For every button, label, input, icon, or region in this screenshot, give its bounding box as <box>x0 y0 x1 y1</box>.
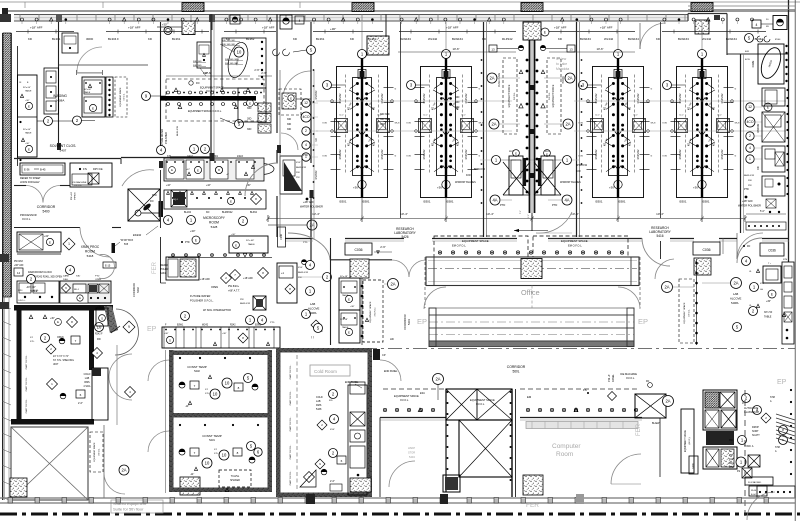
top-right keynote box 4 <box>752 20 761 28</box>
svg-text:BHW-ICW: BHW-ICW <box>474 168 486 171</box>
svg-text:4: 4 <box>756 23 758 27</box>
svg-text:BLW164: BLW164 <box>726 37 737 41</box>
svg-text:FER: FER <box>152 261 158 274</box>
svg-text:PTD: PTD <box>500 203 505 207</box>
svg-text:E: E <box>290 96 292 100</box>
svg-text:PIPING: PIPING <box>75 192 77 200</box>
svg-text:-14": -14" <box>185 406 189 408</box>
svg-text:FS: FS <box>583 388 587 392</box>
svg-text:+66" AFF: +66" AFF <box>14 264 24 267</box>
door arc cold to corridor <box>380 360 401 381</box>
west wall water polisher fixtures <box>280 156 302 194</box>
svg-text:BHW-ICW: BHW-ICW <box>240 303 251 305</box>
office west double door arcs <box>392 260 409 277</box>
svg-text:CART O.F.O.L.: CART O.F.O.L. <box>289 416 292 431</box>
computer room north wall <box>380 417 446 419</box>
svg-text:+30": +30" <box>164 333 169 335</box>
central fume hood spine wall <box>529 22 531 213</box>
dark mech box below shaft <box>443 475 460 492</box>
svg-text:LAB: LAB <box>310 302 315 306</box>
svg-text:SOLVENT CLOS.: SOLVENT CLOS. <box>50 144 77 148</box>
svg-text:WATER POLISHER: WATER POLISHER <box>300 205 323 209</box>
svg-text:PANEL: PANEL <box>612 374 615 382</box>
svg-text:HOOD: HOOD <box>562 76 565 83</box>
alcove west callouts <box>302 260 307 265</box>
dry ice room <box>70 163 112 187</box>
svg-text:PROCESSOR: PROCESSOR <box>20 213 37 217</box>
svg-text:EQUIPMENT SPACE: EQUIPMENT SPACE <box>93 442 96 462</box>
svg-text:LLO: LLO <box>680 115 684 117</box>
wall segment below elevator <box>160 170 162 228</box>
svg-text:PTD: PTD <box>152 194 157 197</box>
instrument lab east wall x211 <box>210 14 212 160</box>
svg-text:+18" AFF: +18" AFF <box>600 26 613 30</box>
door arc instrument lab south <box>245 163 278 196</box>
svg-text:+42": +42" <box>186 169 190 171</box>
svg-text:BL362: BL362 <box>368 37 377 41</box>
svg-text:BHW-ICW: BHW-ICW <box>744 175 755 177</box>
svg-text:EQUIPMENT SPACE: EQUIPMENT SPACE <box>508 84 511 107</box>
svg-text:G: G <box>735 89 737 91</box>
svg-text:KD: KD <box>766 26 769 28</box>
lower-left lab bench row y327 <box>162 327 280 348</box>
svg-text:2: 2 <box>749 134 751 138</box>
callout bubble 3 left pair <box>323 81 332 90</box>
svg-text:HD: HD <box>390 337 394 341</box>
autoclave labels <box>742 394 751 403</box>
svg-text:BL362: BL362 <box>246 37 255 41</box>
svg-text:+6": +6" <box>226 174 229 176</box>
svg-text:RNP242: RNP242 <box>315 170 318 180</box>
bottom right door arc <box>747 492 775 520</box>
svg-text:FD: FD <box>150 199 154 203</box>
cold room 1 east wall heavy <box>89 310 94 370</box>
solvent closet walls <box>14 158 121 160</box>
svg-text:10: 10 <box>237 50 242 55</box>
svg-text:REFER TO SHEET: REFER TO SHEET <box>20 177 41 180</box>
svg-text:30"x 48": 30"x 48" <box>340 319 348 321</box>
keynote boxes 13 <box>489 45 497 52</box>
svg-text:13'-6": 13'-6" <box>204 71 211 75</box>
pac keynote box right of x277 <box>280 15 292 29</box>
svg-text:RNP242: RNP242 <box>464 93 468 103</box>
svg-text:G: G <box>395 156 397 158</box>
media poler room walls <box>160 237 162 283</box>
svg-text:"W 5/8" BOX: "W 5/8" BOX <box>120 240 134 242</box>
svg-text:5408A: 5408A <box>731 301 739 305</box>
svg-text:EQUIPMENT SPACE O.F.O.L.: EQUIPMENT SPACE O.F.O.L. <box>188 110 222 113</box>
svg-text:PTD: PTD <box>744 188 749 191</box>
column marker grid blocks top <box>182 3 204 12</box>
svg-text:+48" AFF: +48" AFF <box>303 200 314 204</box>
const temp door arcs west <box>148 360 169 381</box>
svg-text:BL/EW: BL/EW <box>652 422 660 425</box>
bench front line below top wall <box>16 31 74 33</box>
svg-text:+16": +16" <box>206 185 211 187</box>
svg-text:-14": -14" <box>190 474 194 476</box>
east lab wall <box>740 54 742 233</box>
svg-text:CART O.F.O.L.: CART O.F.O.L. <box>25 354 28 369</box>
svg-text:O.F.O.L.: O.F.O.L. <box>18 300 26 302</box>
svg-text:EP: EP <box>147 326 157 333</box>
cold room big walls <box>276 348 281 497</box>
svg-text:30D 30D: 30D 30D <box>380 113 390 116</box>
svg-text:EP: EP <box>638 317 648 326</box>
svg-text:E: E <box>230 199 232 203</box>
svg-text:KD: KD <box>28 37 32 41</box>
bottom corridor wall band gray <box>0 497 310 499</box>
svg-text:IMAGING: IMAGING <box>53 94 67 98</box>
svg-text:14: 14 <box>17 271 21 275</box>
svg-text:BLW164: BLW164 <box>628 37 639 41</box>
svg-text:AUTOCLAVE: AUTOCLAVE <box>744 407 759 410</box>
cold room 1 south wall heavy <box>11 419 94 425</box>
cold room label box <box>310 365 350 376</box>
elevation reference box <box>20 163 65 175</box>
corridor wall door arcs <box>288 233 330 260</box>
imaging equipment space dashed <box>115 77 127 117</box>
svg-text:ICW: ICW <box>576 170 581 173</box>
svg-text:2A: 2A <box>733 281 738 286</box>
svg-text:WL342: WL342 <box>702 37 712 41</box>
svg-text:LAB: LAB <box>316 400 321 403</box>
svg-text:30D: 30D <box>287 124 292 126</box>
svg-text:5416: 5416 <box>656 234 663 238</box>
svg-text:KO: KO <box>315 138 318 142</box>
svg-text:4CO: 4CO <box>303 115 310 119</box>
equipment space dashed rect right of x277 wall <box>279 89 301 115</box>
svg-text:30D: 30D <box>247 128 252 131</box>
svg-text:PTD: PTD <box>270 322 275 324</box>
svg-text:EM O.F.O.L.: EM O.F.O.L. <box>568 244 583 248</box>
const temp room B walls <box>169 417 174 492</box>
corridor 5402 vertical band walls <box>104 306 118 333</box>
svg-text:Office: Office <box>521 288 540 297</box>
svg-text:EQUIPMENT SPACE: EQUIPMENT SPACE <box>683 302 686 323</box>
cold room bottom stipple pad <box>350 478 371 492</box>
svg-text:LLO: LLO <box>340 115 344 117</box>
left border lower wall <box>3 297 5 500</box>
svg-text:13: 13 <box>491 47 495 51</box>
svg-text:BL301: BL301 <box>52 37 61 41</box>
svg-text:KD: KD <box>206 211 210 214</box>
svg-text:B381: B381 <box>447 200 454 204</box>
cold room callouts <box>329 390 338 399</box>
svg-text:+30": +30" <box>50 318 55 320</box>
instrument lab top stipple box <box>182 21 195 35</box>
right side dashed boundary <box>744 390 746 520</box>
svg-text:30"x 60": 30"x 60" <box>23 129 31 131</box>
elevator door arc top <box>122 170 154 186</box>
spine bubbles column right <box>565 73 575 83</box>
svg-text:2A: 2A <box>390 282 395 287</box>
svg-text:BL361: BL361 <box>316 37 325 41</box>
svg-text:30"x 5F: 30"x 5F <box>764 311 773 314</box>
sheet corner square <box>2 8 8 14</box>
svg-text:DARKROOM CLOCK: DARKROOM CLOCK <box>28 271 52 274</box>
svg-text:( ): ( ) <box>311 335 314 339</box>
wall service marks on spine room walls <box>481 59 483 61</box>
svg-text:STM: STM <box>775 447 780 449</box>
big shaft X box <box>459 420 512 477</box>
cp door black jamb <box>373 349 380 360</box>
svg-text:10: 10 <box>213 392 218 397</box>
svg-text:ROOM: ROOM <box>85 250 95 254</box>
black utility box left of bench <box>171 190 187 207</box>
svg-text:LLO: LLO <box>462 115 466 117</box>
svg-text:KD: KD <box>350 37 354 41</box>
svg-text:24GO: 24GO <box>237 156 243 158</box>
svg-text:RMS: RMS <box>316 404 322 407</box>
svg-text:CORRIDOR: CORRIDOR <box>37 205 56 209</box>
xray proc room label and callouts <box>63 238 75 250</box>
svg-text:2A: 2A <box>567 76 572 81</box>
svg-text:BY04: BY04 <box>775 39 781 41</box>
bench callout bubble 1 x702 <box>701 22 703 50</box>
svg-text:+18" AFF: +18" AFF <box>30 26 43 30</box>
top-right pac box <box>773 16 787 30</box>
svg-text:O.F.O.L.: O.F.O.L. <box>99 448 101 456</box>
shared equipment note box <box>111 500 163 513</box>
right alcove fixture box <box>763 266 781 283</box>
computer room east wall <box>659 418 661 478</box>
svg-text:4A: 4A <box>564 198 569 203</box>
spine fixture dots <box>526 59 529 62</box>
lab bench module at x618 <box>579 55 657 204</box>
svg-text:FD: FD <box>196 81 200 85</box>
office equipment space dashed rects <box>434 236 528 257</box>
svg-text:OPEN: OPEN <box>211 286 218 289</box>
imaging top small fixture <box>62 33 78 53</box>
svg-text:LLO: LLO <box>509 150 514 153</box>
svg-text:13: 13 <box>569 47 573 51</box>
svg-text:30D: 30D <box>455 106 460 109</box>
svg-text:TABLE: TABLE <box>30 290 38 293</box>
svg-text:2: 2 <box>305 129 307 133</box>
svg-text:TCU/SL: TCU/SL <box>231 475 240 478</box>
equipment space LE O tall rect <box>681 409 694 473</box>
svg-text:BLMP242: BLMP242 <box>222 211 233 214</box>
keynote box 4 and dot top <box>295 16 304 24</box>
sheet top border line <box>0 1 800 3</box>
cold room door wedge <box>304 472 315 483</box>
svg-text:30KD: 30KD <box>86 37 93 41</box>
svg-text:ICE MACHINE: ICE MACHINE <box>620 372 637 376</box>
svg-text:W242: W242 <box>202 325 209 327</box>
svg-text:10'-4": 10'-4" <box>656 212 664 216</box>
right wing fixture stack <box>762 88 785 106</box>
computer room door arc <box>611 454 641 484</box>
darkroom corner fixture <box>96 308 108 326</box>
right alcove service line with dots <box>696 259 698 345</box>
svg-text:O.F.O.L.: O.F.O.L. <box>206 90 215 93</box>
svg-text:FUTURE WATER: FUTURE WATER <box>190 294 210 298</box>
bench callout bubble 1 x362 <box>361 22 363 50</box>
svg-text:RNP242: RNP242 <box>380 149 384 159</box>
svg-text:30D: 30D <box>455 101 460 104</box>
svg-text:CART O.F.O.L.: CART O.F.O.L. <box>289 390 292 405</box>
svg-text:EQUIPMENT SPACE: EQUIPMENT SPACE <box>552 84 555 107</box>
cold room double door arcs <box>109 354 132 377</box>
door hatch pads <box>350 259 369 278</box>
callout 5 instrument lab <box>235 120 244 129</box>
svg-text:B381: B381 <box>619 200 626 204</box>
shaft twin X boxes <box>446 389 512 420</box>
svg-text:+36": +36" <box>350 306 355 308</box>
svg-text:CART O.F.O.L.: CART O.F.O.L. <box>289 444 292 459</box>
corridor 2A bubble <box>433 374 444 385</box>
svg-text:B381: B381 <box>703 200 710 204</box>
svg-text:SK-8: SK-8 <box>395 123 401 125</box>
svg-text:ICE MACHINE: ICE MACHINE <box>72 181 87 184</box>
svg-text:5408A: 5408A <box>56 99 65 103</box>
svg-text:EM O.F.O.L.: EM O.F.O.L. <box>452 244 467 248</box>
svg-text:B301: B301 <box>680 200 687 204</box>
svg-text:RLP242: RLP242 <box>502 37 513 41</box>
svg-text:30D: 30D <box>247 118 252 121</box>
soil interceptor x-box <box>253 296 266 310</box>
corridor east edge line <box>165 350 167 493</box>
svg-text:10: 10 <box>205 461 210 466</box>
lab alcove fixture column x278 <box>277 263 297 303</box>
svg-text:KO: KO <box>630 107 632 111</box>
2A bubble ice <box>663 396 674 407</box>
svg-text:E: E <box>92 106 94 110</box>
svg-text:G: G <box>479 156 481 158</box>
svg-text:RNP242: RNP242 <box>636 93 640 103</box>
imaging room west wall <box>58 22 60 150</box>
svg-text:5402: 5402 <box>136 287 140 293</box>
upper bench box near microscopy <box>229 236 268 253</box>
svg-text:CART O.F.O.L.: CART O.F.O.L. <box>289 470 292 485</box>
top exterior window wall <box>14 15 688 22</box>
svg-text:2A: 2A <box>491 122 496 127</box>
svg-text:30D 30D: 30D 30D <box>380 118 390 121</box>
svg-text:CONST TEMP: CONST TEMP <box>202 434 222 438</box>
corridor north wall and double door <box>14 185 26 187</box>
door arc right wing x640 <box>640 23 666 49</box>
door arc cold corridor half swing <box>115 309 139 355</box>
svg-text:PW 8/20+: PW 8/20+ <box>228 285 240 288</box>
svg-text:E: E <box>28 147 30 151</box>
svg-text:4CO: 4CO <box>747 120 754 124</box>
svg-text:+18" AFF: +18" AFF <box>128 26 141 30</box>
svg-text:SK-8: SK-8 <box>651 123 657 125</box>
svg-text:24" X 72" X 74": 24" X 72" X 74" <box>53 356 69 358</box>
svg-text:STM: STM <box>729 467 734 469</box>
svg-text:30"x 60": 30"x 60" <box>23 87 31 89</box>
svg-text:LLO: LLO <box>718 115 722 117</box>
vertical lab dim leaders <box>361 198 363 216</box>
svg-text:RNP242: RNP242 <box>720 93 724 103</box>
office center hatch block <box>521 259 542 279</box>
svg-text:KO: KO <box>630 143 632 147</box>
office table 2 double <box>429 308 634 315</box>
cold room tall door leaf <box>92 368 108 420</box>
door arc imaging room entry <box>77 47 102 72</box>
svg-text:RNP242: RNP242 <box>315 90 318 100</box>
svg-text:KO: KO <box>458 143 460 147</box>
svg-text:WL342: WL342 <box>428 37 438 41</box>
svg-text:C036: C036 <box>280 233 283 239</box>
svg-text:POLISHER: POLISHER <box>166 132 168 144</box>
svg-text:O.F.O.L.: O.F.O.L. <box>124 93 126 101</box>
svg-text:7'-1": 7'-1" <box>520 210 522 214</box>
svg-text:SORT: SORT <box>752 430 759 433</box>
svg-text:TABLE: TABLE <box>342 326 349 329</box>
svg-text:30"x 60": 30"x 60" <box>84 89 92 91</box>
svg-text:5431: 5431 <box>209 438 215 442</box>
svg-text:TABLE: TABLE <box>25 132 32 135</box>
corridor centerline dash-dot <box>313 348 795 350</box>
svg-text:2A: 2A <box>489 76 494 81</box>
svg-text:PW +18': PW +18' <box>71 191 73 200</box>
svg-text:HSKP: HSKP <box>408 446 415 450</box>
darkroom fixtures row <box>60 281 111 303</box>
spine room east wall <box>576 22 578 237</box>
right wing circles column <box>746 103 754 111</box>
svg-text:UNIT: UNIT <box>53 364 59 366</box>
svg-text:S3D: S3D <box>76 276 81 278</box>
svg-text:FID: FID <box>97 339 101 341</box>
hw-1-4 ellipse fixture <box>248 164 274 175</box>
svg-text:MEDIA: MEDIA <box>160 264 168 267</box>
svg-text:10: 10 <box>97 325 102 330</box>
svg-text:G: G <box>735 156 737 158</box>
svg-text:+30": +30" <box>190 229 195 233</box>
svg-text:1'-1": 1'-1" <box>528 214 530 218</box>
svg-text:Mendota: Mendota <box>556 67 569 71</box>
window mullions <box>19 15 21 22</box>
instrument lab equipment space dashed rect <box>166 79 264 121</box>
svg-text:E-04: E-04 <box>751 494 756 496</box>
stacked hatched blocks right of instrument lab <box>258 103 271 112</box>
lab upper dim line <box>398 51 516 53</box>
svg-text:+30": +30" <box>25 143 30 145</box>
svg-text:CORRIDOR: CORRIDOR <box>507 365 526 369</box>
stacked units label <box>745 477 773 485</box>
svg-text:C036: C036 <box>702 248 710 252</box>
right alcove arrows <box>756 269 759 272</box>
keynote 14 box <box>14 268 23 276</box>
svg-text:RNP242: RNP242 <box>338 93 342 103</box>
svg-text:RNP242: RNP242 <box>594 149 598 159</box>
svg-text:STM: STM <box>770 397 775 399</box>
svg-text:SCATT: SCATT <box>752 434 760 437</box>
imaging west wall fixture strip <box>44 68 59 114</box>
svg-text:1: 1 <box>749 157 751 161</box>
svg-text:EQUIPMENT SPACE: EQUIPMENT SPACE <box>119 87 122 107</box>
svg-text:5434: 5434 <box>160 272 166 275</box>
svg-text:+34": +34" <box>44 235 49 238</box>
svg-text:KO: KO <box>714 143 716 147</box>
svg-text:12: 12 <box>748 105 752 109</box>
spine canopy hood counters <box>509 156 523 195</box>
hatch block at wall jog x385 <box>367 36 389 55</box>
svg-text:EQUIPMENT SPACE: EQUIPMENT SPACE <box>369 301 372 322</box>
svg-text:E-36: E-36 <box>24 168 30 172</box>
svg-text:G: G <box>651 156 653 158</box>
microscopy bench row 1 <box>164 158 264 181</box>
svg-text:FUME: FUME <box>753 60 755 67</box>
svg-text:C036: C036 <box>768 249 776 253</box>
spine black side bars <box>524 158 527 186</box>
svg-text:+18" AFF: +18" AFF <box>446 26 459 30</box>
svg-text:C036: C036 <box>354 248 362 252</box>
svg-text:O.F.O.L.: O.F.O.L. <box>549 92 551 101</box>
stipple pad right of shaft <box>523 475 543 495</box>
svg-text:+66" A.T.T.: +66" A.T.T. <box>228 290 240 293</box>
